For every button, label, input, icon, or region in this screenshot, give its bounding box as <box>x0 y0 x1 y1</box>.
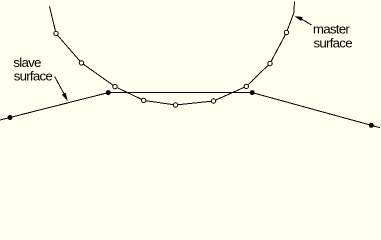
slave node 1 <box>8 115 13 120</box>
svg-text:surface: surface <box>314 36 353 51</box>
slave node 3 <box>250 90 255 95</box>
master label arrow <box>295 16 312 25</box>
master node 2 <box>79 61 83 65</box>
master node 5 <box>173 103 177 107</box>
master surface label <box>313 22 352 51</box>
master node 9 <box>284 30 288 34</box>
svg-text:surface: surface <box>14 69 53 84</box>
master node 8 <box>268 61 272 65</box>
slave node 4 <box>369 123 374 128</box>
svg-text:master: master <box>313 22 350 37</box>
slave label arrow <box>55 77 68 102</box>
master node 1 <box>54 31 58 35</box>
slave node 2 <box>106 90 111 95</box>
master node 6 <box>211 99 215 103</box>
slave surface polyline <box>0 93 380 128</box>
master node 3 <box>113 84 117 88</box>
master node 7 <box>244 84 248 88</box>
slave surface label <box>13 55 52 84</box>
master surface polyline <box>50 2 295 106</box>
master node 4 <box>142 98 146 102</box>
